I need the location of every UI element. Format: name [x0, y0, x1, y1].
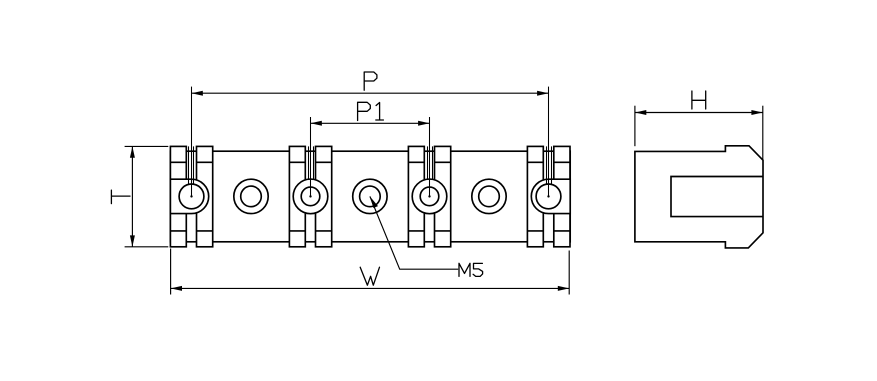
clamp 2 screw outer circle [293, 179, 328, 214]
dimension W arrow left [171, 286, 182, 291]
dimension W line [171, 287, 570, 289]
label H [692, 91, 706, 109]
clamp 1 screw head [179, 184, 204, 209]
clamp 1 screw plate (stadium) [170, 179, 208, 213]
leader arrow to M5 hole [370, 196, 378, 208]
dimension T extension bottom [125, 246, 169, 248]
dimension P extension line left / clamp 1 centerline [191, 87, 193, 197]
dimension H extension right [762, 106, 764, 160]
dimension P1 arrow right [418, 121, 429, 126]
clamp 4 left bar [527, 146, 543, 246]
clamp 3 right bar [435, 146, 451, 246]
dimension W extension left [170, 249, 172, 295]
leader line M5 [370, 196, 458, 269]
clamp 4 slot lines [547, 146, 552, 184]
label P [364, 72, 377, 90]
label M5 [459, 263, 483, 276]
dimension H arrow right [751, 110, 762, 115]
mounting hole 3 inner [479, 186, 500, 207]
clamp 1 slot lines [189, 146, 194, 184]
clamp 4 screw head [536, 184, 561, 209]
dimension P arrow right [537, 91, 548, 96]
dimension T extension top [125, 145, 169, 147]
dimension P1 line [311, 122, 430, 124]
terminal block body [170, 151, 570, 242]
dimension T line [131, 146, 133, 246]
dimension P1 extension line left / clamp 2 centerline [310, 117, 312, 196]
clamp 2 left bar [289, 146, 305, 246]
dimension P line [192, 92, 549, 94]
label P1 [358, 102, 384, 120]
clamp 4 screw plate (stadium) [531, 179, 570, 213]
clamp 1 right bar [197, 146, 213, 246]
dimension H line [635, 112, 763, 114]
side view outline [635, 146, 763, 248]
dimension W arrow right [558, 286, 569, 291]
clamp 4 right bar [554, 146, 570, 246]
mounting hole 2 (M5) inner [360, 186, 381, 207]
clamp 2 slot lines [309, 146, 314, 179]
mounting hole 2 (M5) outer [353, 179, 387, 213]
dimension W extension right [568, 251, 570, 295]
mounting hole 1 outer [234, 179, 268, 213]
dimension P extension line right / clamp 4 centerline [548, 87, 550, 197]
label T (rotated) [111, 190, 130, 204]
label W [360, 267, 379, 285]
mounting hole 1 inner [241, 186, 262, 207]
dimension P1 arrow left [311, 121, 322, 126]
clamp 2 right bar [316, 146, 332, 246]
dimension T arrow bottom [130, 235, 135, 246]
dimension H arrow left [635, 110, 646, 115]
clamp 3 left bar [408, 146, 424, 246]
dimension P1 extension line right / clamp 3 centerline [429, 117, 431, 196]
clamp 3 screw outer circle [412, 179, 447, 214]
clamp 2 screw inner circle [301, 187, 320, 206]
clamp 3 slot lines [428, 146, 433, 179]
mounting hole 3 outer [472, 179, 506, 213]
dimension P arrow left [192, 91, 203, 96]
dimension T arrow top [130, 146, 135, 157]
side view notch [671, 177, 763, 217]
dimension H extension left [634, 106, 636, 147]
clamp 3 screw inner circle [420, 187, 439, 206]
clamp 1 left bar [170, 146, 186, 246]
